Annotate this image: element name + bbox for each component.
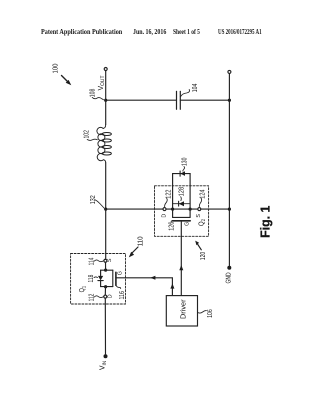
label 130 xyxy=(180,158,189,172)
pin D of Q2 xyxy=(163,208,166,211)
svg-text:Q1: Q1 xyxy=(77,286,87,293)
wire: Q1 bottom node to drain pin xyxy=(104,287,106,295)
terminal VOUT xyxy=(104,68,107,71)
svg-text:GND: GND xyxy=(226,272,233,283)
svg-text:102: 102 xyxy=(82,130,91,138)
label 106 xyxy=(198,309,214,318)
wire: Q1 gate lead to driver xyxy=(116,278,172,296)
label 128 xyxy=(177,187,186,201)
pin S of Q1 xyxy=(104,259,107,262)
label 114 xyxy=(87,258,104,266)
header: sheet number xyxy=(173,28,200,35)
transistor Q1 body xyxy=(101,270,116,286)
svg-text:126: 126 xyxy=(167,222,176,231)
svg-text:112: 112 xyxy=(87,294,96,302)
svg-text:G: G xyxy=(116,271,123,276)
node: Q2 drain junction xyxy=(171,208,174,211)
wire: inductor to node 132 xyxy=(105,163,107,209)
svg-text:Driver: Driver xyxy=(178,299,187,319)
svg-text:120: 120 xyxy=(198,252,207,260)
wire: node 108 down to inductor 102 xyxy=(105,100,107,124)
pin S of Q2 xyxy=(198,208,201,211)
capacitor 104 xyxy=(177,91,181,109)
node 108 junction xyxy=(104,99,107,102)
dashed box 120 around Q2 xyxy=(155,186,209,237)
svg-text:116: 116 xyxy=(117,291,126,299)
node: right rail junction xyxy=(228,208,231,211)
arrowhead up on Q2 gate lead xyxy=(179,265,183,270)
svg-text:Fig. 1: Fig. 1 xyxy=(257,206,272,238)
arrowhead left on Q1 gate wire xyxy=(150,276,155,280)
terminal VIN xyxy=(98,354,108,370)
header: date xyxy=(133,28,166,35)
arrowhead up on driver output xyxy=(170,283,174,288)
dashed box 110 around Q1 xyxy=(71,254,126,305)
header: Patent Application Publication xyxy=(41,28,122,35)
wire: VOUT terminal to node 108 xyxy=(105,71,107,100)
wire 132: node to Q2 drain pin xyxy=(106,208,163,210)
wire: right rail xyxy=(228,74,230,266)
callout arrow 120 xyxy=(195,241,207,261)
svg-text:104: 104 xyxy=(190,84,199,93)
label 122 xyxy=(164,190,173,207)
label 126 xyxy=(167,221,176,231)
driver U106 box xyxy=(166,296,197,326)
wire: Q2 drain pin to source pin xyxy=(166,208,198,210)
wire: Q1 source pin to top node xyxy=(105,262,107,270)
svg-text:128: 128 xyxy=(177,187,186,196)
diode 130 (external) xyxy=(173,171,191,176)
label 104 xyxy=(180,84,199,97)
svg-text:124: 124 xyxy=(198,190,207,199)
label 102 xyxy=(82,130,98,140)
diode 118 (body diode of Q1) xyxy=(98,276,103,281)
svg-text:VOUT: VOUT xyxy=(96,75,106,91)
svg-text:100: 100 xyxy=(51,64,60,74)
svg-text:Q2: Q2 xyxy=(197,219,207,226)
ground GND terminal xyxy=(226,266,233,284)
svg-text:G: G xyxy=(184,221,191,226)
svg-text:S: S xyxy=(195,214,202,218)
svg-text:D: D xyxy=(161,214,167,218)
node: cap to right rail junction xyxy=(228,99,231,102)
pin D of Q1 xyxy=(104,295,107,298)
label 112 xyxy=(87,294,104,302)
svg-text:D: D xyxy=(108,294,114,298)
svg-text:108: 108 xyxy=(88,89,97,98)
label 124 xyxy=(198,190,207,207)
svg-text:110: 110 xyxy=(135,236,144,246)
header: publication number xyxy=(218,28,262,35)
svg-text:130: 130 xyxy=(180,158,189,166)
label 132 xyxy=(88,195,104,208)
node: Q2 source junction xyxy=(189,208,192,211)
wire: node 108 to capacitor 104 xyxy=(106,99,177,101)
wire: Q1 drain pin to VIN xyxy=(104,298,106,354)
svg-text:S: S xyxy=(106,258,113,262)
node: Q1 bottom junction xyxy=(104,285,107,288)
figure callout 100 xyxy=(51,64,72,86)
wire: Q2 gate lead to driver xyxy=(180,221,182,296)
callout arrow 110 xyxy=(129,236,145,257)
inductor 102 xyxy=(97,125,111,163)
wire: node 132 down to Q1 source pin xyxy=(105,209,107,259)
svg-text:118: 118 xyxy=(86,275,95,283)
svg-text:122: 122 xyxy=(164,190,173,199)
wire: capacitor 104 to right rail xyxy=(180,99,229,101)
diode 128 (body diode) xyxy=(173,201,191,206)
svg-text:VIN: VIN xyxy=(98,361,108,370)
wire: Q2 source pin to right rail xyxy=(201,208,230,210)
label 118 xyxy=(86,275,97,283)
label 116 xyxy=(116,286,126,300)
label 108 xyxy=(88,89,104,100)
node 132 junction xyxy=(104,208,107,211)
svg-text:114: 114 xyxy=(87,258,96,266)
node: Q1 top junction xyxy=(104,269,107,272)
transistor Q2 body xyxy=(173,174,191,221)
terminal top right xyxy=(228,70,231,73)
